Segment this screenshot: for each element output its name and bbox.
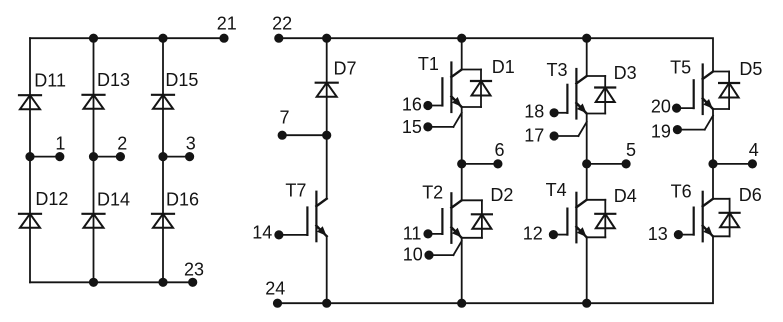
svg-text:1: 1 xyxy=(55,133,65,153)
svg-text:15: 15 xyxy=(402,117,422,137)
node 24 terminal xyxy=(265,278,285,307)
diode D5 xyxy=(713,59,762,109)
junction top rail / chopper leg xyxy=(323,34,331,42)
diode D15 xyxy=(152,70,198,109)
wire top rail (left rectifier block) to node 21 xyxy=(30,37,224,39)
node 1 stub xyxy=(26,133,66,160)
junction bottom rail / T4 leg xyxy=(583,299,591,307)
node 7 stub xyxy=(278,108,331,140)
node 6 stub xyxy=(458,140,505,168)
wire top rail (inverter) node 22 to T5 leg corner xyxy=(279,38,713,71)
svg-text:D1: D1 xyxy=(492,57,515,77)
svg-text:D5: D5 xyxy=(739,59,762,79)
svg-text:12: 12 xyxy=(523,224,543,244)
pin 20 label xyxy=(651,97,671,117)
svg-text:T3: T3 xyxy=(547,60,568,80)
svg-text:D13: D13 xyxy=(97,70,130,90)
junction bottom rail / leg 3 xyxy=(159,278,167,286)
wire chopper leg upper (through D7 to T7 collector) xyxy=(326,38,328,199)
transistor T4 (IGBT) xyxy=(546,180,587,243)
wire T5 emitter to node 4 xyxy=(712,109,714,199)
svg-text:23: 23 xyxy=(184,260,204,280)
svg-text:19: 19 xyxy=(651,122,671,142)
svg-text:D15: D15 xyxy=(165,70,198,90)
pin 13 label xyxy=(648,224,668,244)
node 23 terminal xyxy=(184,260,204,287)
svg-text:4: 4 xyxy=(749,140,759,160)
svg-text:6: 6 xyxy=(494,140,504,160)
pin 14 label xyxy=(252,223,272,243)
pin 11 label xyxy=(403,224,422,244)
pin 15 label xyxy=(402,117,422,137)
diode D1 xyxy=(462,57,515,107)
diode D4 xyxy=(587,186,637,237)
svg-text:20: 20 xyxy=(651,97,671,117)
diode D6 xyxy=(713,185,762,236)
svg-text:T5: T5 xyxy=(670,58,691,78)
wire T7 emitter to bottom rail xyxy=(326,236,328,303)
svg-text:5: 5 xyxy=(626,140,636,160)
svg-text:D16: D16 xyxy=(166,189,199,209)
svg-text:D6: D6 xyxy=(739,185,762,205)
svg-text:14: 14 xyxy=(252,223,272,243)
svg-text:T6: T6 xyxy=(671,182,692,202)
svg-text:3: 3 xyxy=(186,133,196,153)
junction bottom rail / T7 leg xyxy=(323,299,331,307)
svg-text:24: 24 xyxy=(265,278,285,298)
node 21 terminal xyxy=(217,14,237,43)
pin 10 label xyxy=(403,245,423,265)
wire bottom rail (left rectifier block) to node 23 xyxy=(30,281,193,283)
svg-text:18: 18 xyxy=(524,102,544,122)
svg-text:D4: D4 xyxy=(614,186,637,206)
svg-text:10: 10 xyxy=(403,245,423,265)
transistor T1 (IGBT) xyxy=(418,54,462,131)
svg-text:D12: D12 xyxy=(35,189,68,209)
diode D3 xyxy=(587,63,637,113)
pin 16 label xyxy=(402,95,422,115)
svg-text:D3: D3 xyxy=(614,63,637,83)
diode D12 xyxy=(19,189,68,228)
junction top rail / leg 2 xyxy=(89,34,97,42)
wire T4 emitter to bottom rail xyxy=(586,237,588,303)
svg-text:T7: T7 xyxy=(285,180,306,200)
junction top rail / T3 leg xyxy=(583,34,591,42)
transistor T3 (IGBT) xyxy=(547,60,587,140)
svg-text:16: 16 xyxy=(402,95,422,115)
svg-text:22: 22 xyxy=(272,14,292,34)
svg-text:17: 17 xyxy=(524,125,544,145)
wire T2 emitter to bottom rail xyxy=(461,238,463,303)
svg-text:D14: D14 xyxy=(97,189,130,209)
pin 12 label xyxy=(523,224,543,244)
junction top rail / T1 leg xyxy=(458,34,466,42)
wire rectifier leg 2 xyxy=(93,38,95,282)
transistor T2 (IGBT) xyxy=(422,183,462,260)
wire T3 collector xyxy=(586,38,588,76)
svg-text:T1: T1 xyxy=(418,54,439,74)
transistor T5 (IGBT) xyxy=(670,58,713,134)
pin 18 label xyxy=(524,102,544,122)
wire T1 emitter to node 6 xyxy=(461,107,463,200)
wire rectifier leg 3 xyxy=(162,38,164,282)
svg-text:D11: D11 xyxy=(34,71,66,91)
junction bottom rail / T2 leg xyxy=(458,299,466,307)
junction bottom rail / leg 2 xyxy=(89,278,97,286)
node 22 terminal xyxy=(272,14,292,43)
diode D11 xyxy=(19,71,66,110)
svg-text:7: 7 xyxy=(279,108,289,128)
node 2 stub xyxy=(89,133,127,160)
junction top rail / leg 3 xyxy=(159,34,167,42)
pin 17 label xyxy=(524,125,544,145)
pin 19 label xyxy=(651,122,671,142)
svg-text:21: 21 xyxy=(217,14,237,34)
diode D14 xyxy=(83,189,131,227)
diode D13 xyxy=(83,70,131,109)
svg-text:2: 2 xyxy=(117,133,127,153)
svg-text:13: 13 xyxy=(648,224,668,244)
transistor T7 (IGBT) xyxy=(275,180,327,241)
transistor T6 (IGBT) xyxy=(671,182,713,242)
wire rectifier leg 1 xyxy=(29,38,31,282)
diode D16 xyxy=(152,189,199,227)
diode D2 xyxy=(462,185,514,238)
wire T3 emitter to node 5 xyxy=(586,114,588,200)
node 4 stub xyxy=(709,140,759,168)
wire T1 collector xyxy=(461,38,463,69)
diode D7 xyxy=(316,59,357,97)
svg-text:D7: D7 xyxy=(334,59,357,79)
svg-text:11: 11 xyxy=(403,224,422,244)
node 3 stub xyxy=(159,133,196,160)
svg-text:T2: T2 xyxy=(422,183,443,203)
svg-text:T4: T4 xyxy=(546,180,567,200)
svg-text:D2: D2 xyxy=(490,185,513,205)
wire bottom rail (inverter) node 24 to T6 leg corner xyxy=(278,236,714,303)
node 5 stub xyxy=(583,140,636,168)
